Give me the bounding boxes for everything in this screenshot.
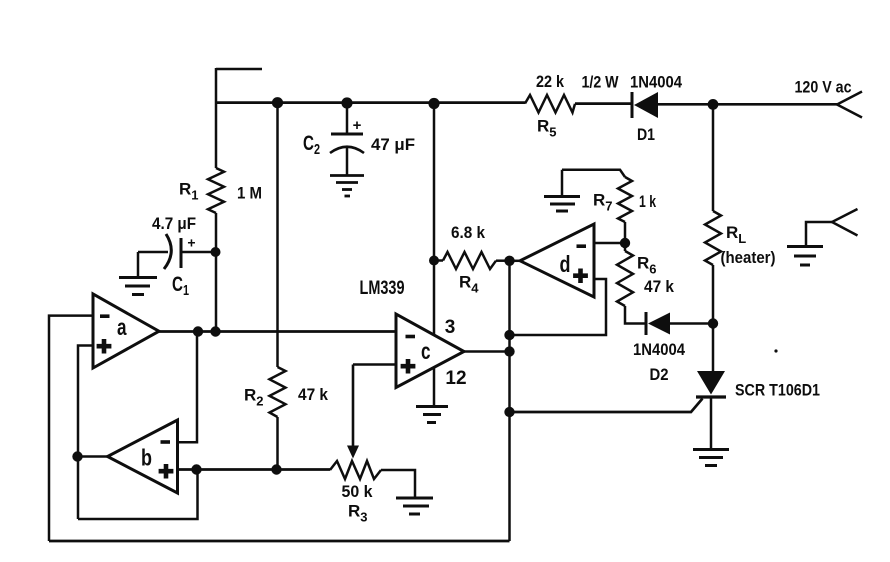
svg-text:50 k: 50 k: [342, 482, 374, 501]
resistor R6 47k: [617, 251, 633, 306]
svg-text:120 V ac: 120 V ac: [795, 78, 852, 97]
op-amp a: [93, 294, 159, 368]
svg-text:1N4004: 1N4004: [630, 73, 682, 92]
potentiometer R3 50k: [330, 365, 415, 499]
wire c plus input: [353, 363, 396, 366]
wire d minus input: [594, 242, 625, 245]
node junction d plus link: [504, 330, 514, 340]
resistor R7 1k: [618, 177, 632, 222]
ground C2: [330, 176, 364, 197]
wire a output bus to c: [159, 330, 396, 333]
svg-text:D2: D2: [650, 365, 669, 384]
capacitor C2 47uF: [330, 103, 364, 175]
ground R7: [544, 197, 580, 212]
svg-text:1N4004: 1N4004: [633, 340, 685, 359]
resistor R2 47k: [270, 367, 286, 417]
wire d plus link: [510, 279, 607, 335]
wire a minus input: [49, 316, 93, 541]
node junction R2 bottom: [271, 464, 281, 474]
node junction D2 RL SCR: [708, 318, 718, 328]
svg-text:12: 12: [445, 368, 466, 389]
ground R3: [396, 498, 433, 514]
wire R7 top to ground: [562, 170, 625, 177]
wire R6 to D2: [625, 306, 646, 324]
capacitor C1 4.7uF: [138, 234, 216, 277]
node junction R1/C1 branch: [210, 326, 220, 336]
svg-text:+: +: [187, 235, 195, 251]
node junction R4 left: [429, 256, 439, 266]
wire RL bottom: [712, 265, 715, 371]
node junction b plus: [191, 464, 201, 474]
wire b minus to a output: [178, 332, 198, 443]
SCR T106D1: [696, 371, 726, 449]
node speck: [774, 349, 777, 352]
svg-text:1 k: 1 k: [639, 192, 656, 211]
svg-text:22 k: 22 k: [536, 72, 564, 91]
svg-text:6.8 k: 6.8 k: [451, 223, 485, 242]
wire top supply bus left: [216, 101, 525, 104]
resistor R4 6.8k: [434, 252, 510, 269]
ground op-amp c: [416, 407, 448, 423]
wire R2 lower vertical: [276, 417, 279, 470]
wire b plus input: [178, 468, 331, 471]
svg-text:3: 3: [445, 317, 456, 338]
wire b output: [78, 455, 108, 458]
svg-text:SCR T106D1: SCR T106D1: [735, 381, 820, 400]
op-amp d: [520, 224, 594, 297]
svg-text:+: +: [353, 117, 362, 134]
svg-text:1 M: 1 M: [237, 184, 262, 203]
svg-text:47 μF: 47 μF: [371, 135, 415, 154]
wire b feedback loop: [78, 470, 198, 520]
wire c pin12 to ground: [433, 367, 436, 406]
connector 120 V ac: [837, 92, 862, 118]
wire top stub: [216, 68, 262, 71]
wire D2 to RL: [670, 322, 713, 325]
node junction top bus R2: [272, 97, 283, 108]
wire pin3 supply vertical: [433, 104, 436, 336]
node junction top bus pin3: [428, 98, 439, 109]
wire neutral to ground: [806, 222, 832, 246]
node junction b output: [72, 451, 82, 461]
wire comparator node vertical: [508, 261, 511, 541]
connector neutral: [832, 209, 858, 236]
resistor R5 22k 1/2W: [525, 95, 575, 113]
node junction c output: [504, 346, 514, 356]
diode D1 1N4004: [632, 92, 658, 118]
svg-text:a: a: [117, 314, 127, 340]
wire R7 to node: [624, 222, 627, 251]
svg-text:LM339: LM339: [360, 278, 405, 299]
node junction comparator output: [504, 256, 514, 266]
svg-text:D1: D1: [637, 125, 655, 144]
wire R1 to C1 node: [215, 213, 218, 332]
wire a plus input: [78, 346, 93, 520]
svg-text:(heater): (heater): [721, 248, 776, 267]
wire top supply bus middle: [575, 102, 632, 105]
resistor R1 1M: [208, 168, 224, 213]
wire R7 ground stub: [561, 170, 564, 196]
svg-text:d: d: [560, 251, 571, 277]
wire d output: [510, 260, 521, 263]
wire SCR gate: [510, 399, 703, 413]
wire c output: [464, 350, 510, 353]
wire R2 upper vertical: [276, 103, 279, 367]
svg-text:47 k: 47 k: [644, 277, 674, 296]
svg-text:b: b: [141, 445, 152, 471]
ground SCR: [693, 450, 729, 466]
wire RL top: [712, 105, 715, 212]
wire R1 upper vertical: [215, 68, 218, 168]
wire bottom long: [49, 540, 510, 543]
op-amp c: [396, 314, 464, 388]
node junction gate wire: [504, 407, 514, 417]
ground C1: [119, 278, 157, 295]
op-amp b: [108, 420, 178, 493]
svg-text:4.7 μF: 4.7 μF: [152, 214, 196, 233]
diode D2 1N4004: [646, 312, 670, 335]
node junction top bus RL: [708, 99, 719, 110]
node junction R7 R6: [620, 238, 630, 248]
wire top supply bus right: [658, 103, 837, 106]
ground neutral: [787, 247, 823, 266]
svg-text:c: c: [421, 338, 431, 364]
node junction C1: [211, 247, 221, 257]
svg-text:47 k: 47 k: [298, 385, 328, 404]
resistor RL heater: [705, 211, 721, 265]
node junction top bus C2: [341, 97, 352, 108]
node junction a output: [193, 326, 203, 336]
svg-text:1/2 W: 1/2 W: [582, 73, 620, 92]
